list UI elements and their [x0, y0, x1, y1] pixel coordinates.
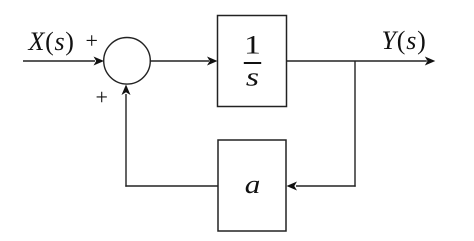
wire input X(s) to summing junction: [23, 60, 95, 62]
svg-text:Y(s): Y(s): [382, 26, 427, 55]
wire feedback up to summing junction: [125, 94, 127, 187]
svg-text:s: s: [246, 62, 259, 91]
svg-text:+: +: [96, 85, 108, 110]
wire summing junction to integrator block: [150, 60, 209, 62]
sign + (input to summing junction): [86, 28, 98, 53]
svg-text:a: a: [245, 170, 261, 199]
svg-text:1: 1: [244, 30, 261, 59]
wire branch to gain block (right segment of feedback): [296, 185, 356, 187]
block gain a: [218, 140, 286, 231]
wire gain block output to left (left segment of feedback): [125, 185, 218, 187]
arrowhead into gain block (pointing left): [287, 182, 298, 191]
arrowhead into summing junction bottom (pointing up): [122, 85, 131, 96]
wire integrator output to Y(s): [287, 60, 427, 62]
arrowhead into integrator block (pointing right): [207, 57, 218, 66]
arrowhead into summing junction (pointing right): [94, 57, 105, 66]
value label 1/s fraction: [244, 30, 261, 91]
svg-text:+: +: [86, 28, 98, 53]
svg-text:X(s): X(s): [28, 27, 75, 56]
wire branch down from output line: [354, 61, 356, 187]
arrowhead output Y(s) (pointing right): [425, 57, 436, 66]
node label Y(s): [382, 26, 427, 55]
summing junction (circle): [104, 38, 151, 85]
block U1 integrator 1/s: [218, 16, 287, 107]
sign + (feedback input to summing junction): [96, 85, 108, 110]
node label X(s): [28, 27, 75, 56]
value label a: [245, 170, 261, 199]
